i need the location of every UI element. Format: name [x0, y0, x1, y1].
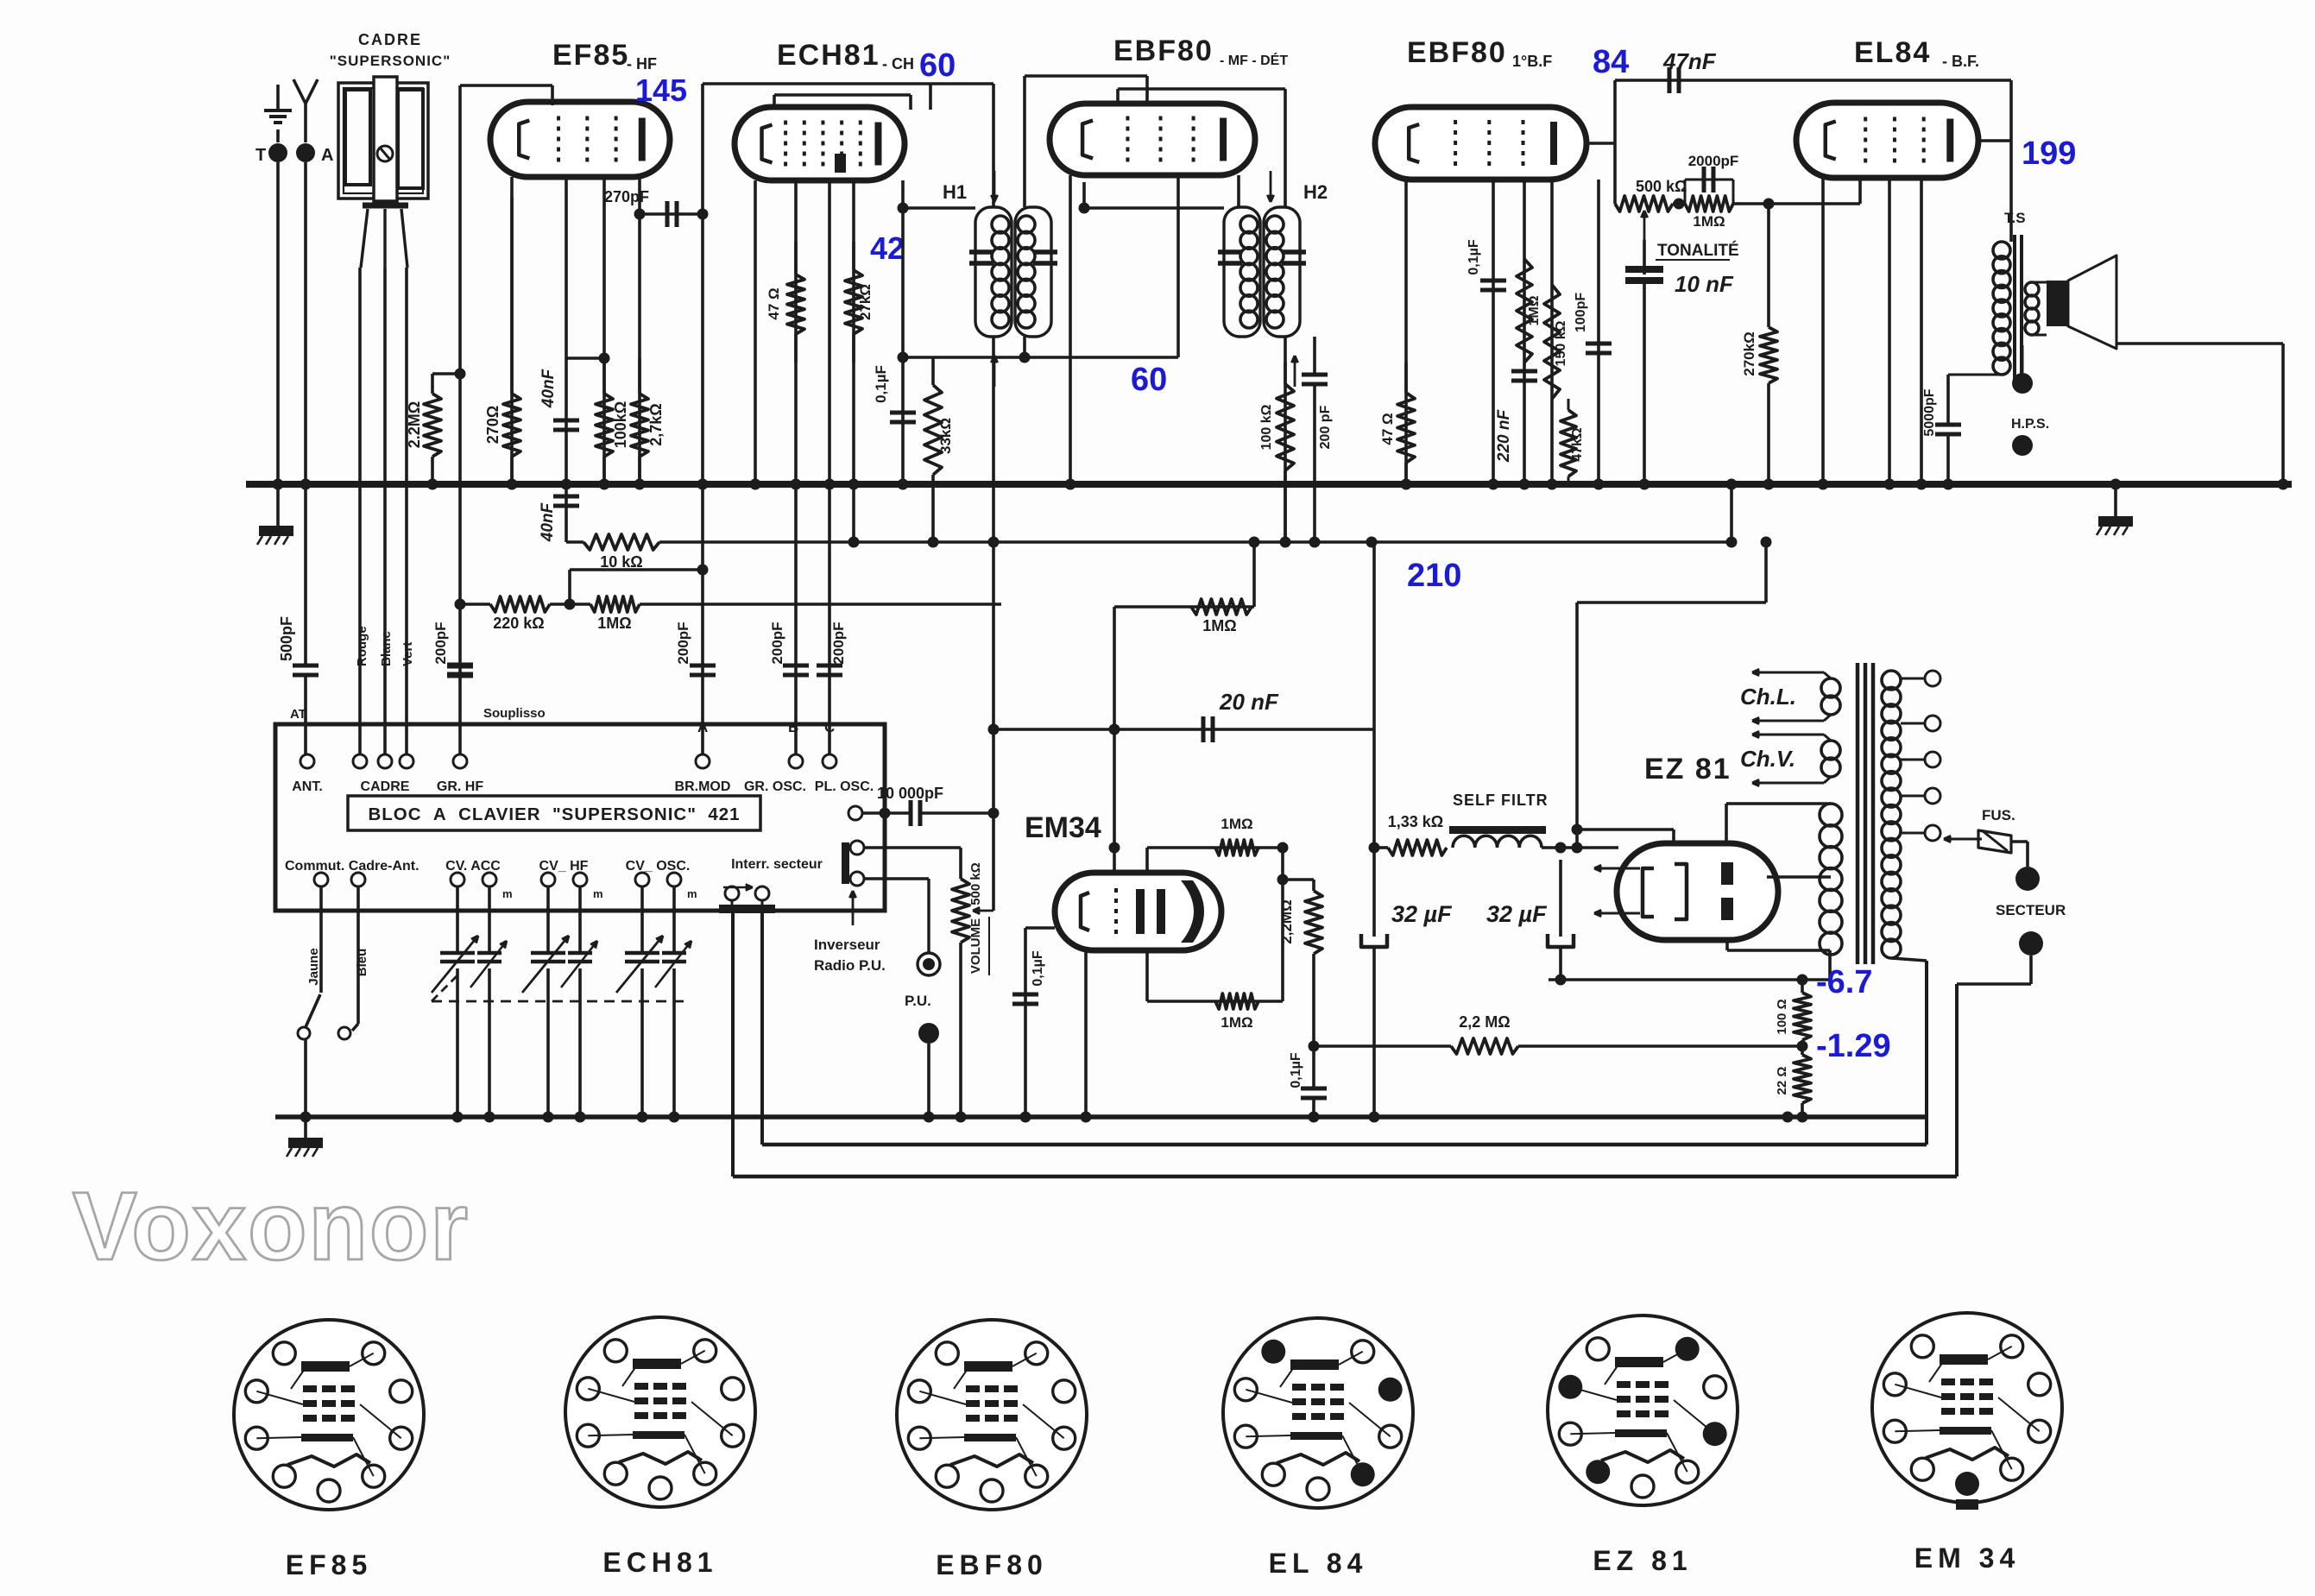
svg-text:0,1µF: 0,1µF — [873, 365, 889, 403]
svg-text:100kΩ: 100kΩ — [612, 401, 629, 448]
svg-text:32 µF: 32 µF — [1486, 901, 1548, 927]
svg-text:27kΩ: 27kΩ — [857, 284, 874, 320]
svg-text:- CH: - CH — [882, 55, 914, 73]
svg-text:FUS.: FUS. — [1982, 807, 2015, 823]
svg-text:EM34: EM34 — [1025, 811, 1101, 844]
svg-text:1,33 kΩ: 1,33 kΩ — [1388, 813, 1443, 830]
svg-text:210: 210 — [1407, 558, 1461, 594]
svg-text:Blanc: Blanc — [379, 631, 394, 666]
svg-text:2,7kΩ: 2,7kΩ — [647, 403, 665, 445]
svg-text:EBF80: EBF80 — [936, 1549, 1048, 1580]
svg-text:PL. OSC.: PL. OSC. — [815, 779, 874, 794]
svg-text:100pF: 100pF — [1574, 293, 1588, 332]
svg-text:1MΩ: 1MΩ — [1221, 816, 1252, 832]
svg-text:ECH81: ECH81 — [777, 39, 880, 72]
svg-text:Vert: Vert — [401, 642, 415, 666]
svg-text:Ch.L.: Ch.L. — [1740, 684, 1796, 710]
svg-text:A: A — [321, 146, 333, 165]
svg-text:P.U.: P.U. — [905, 993, 931, 1009]
svg-text:5000pF: 5000pF — [1922, 388, 1937, 436]
svg-text:1MΩ: 1MΩ — [1221, 1014, 1252, 1031]
svg-text:C: C — [824, 719, 835, 735]
svg-text:47 Ω: 47 Ω — [1379, 413, 1396, 445]
svg-text:Voxonor: Voxonor — [73, 1172, 470, 1280]
svg-text:BLOC A CLAVIER "SUPERSONIC": BLOC A CLAVIER "SUPERSONIC" 421 — [368, 804, 740, 824]
svg-text:EBF80: EBF80 — [1113, 35, 1214, 67]
svg-text:EF85: EF85 — [552, 39, 629, 72]
svg-text:- B.F.: - B.F. — [1942, 53, 1979, 70]
svg-text:47nF: 47nF — [1662, 48, 1717, 74]
svg-text:Jaune: Jaune — [306, 948, 321, 985]
svg-text:CV. ACC: CV. ACC — [445, 859, 501, 874]
svg-text:145: 145 — [635, 73, 687, 108]
svg-text:Interr. secteur: Interr. secteur — [731, 857, 823, 872]
svg-text:SECTEUR: SECTEUR — [1996, 902, 2066, 918]
svg-text:200pF: 200pF — [830, 621, 847, 664]
svg-text:SELF FILTR: SELF FILTR — [1453, 792, 1549, 809]
svg-text:20 nF: 20 nF — [1219, 689, 1279, 715]
svg-text:10 000pF: 10 000pF — [877, 785, 943, 802]
svg-text:2,2MΩ: 2,2MΩ — [1278, 899, 1295, 943]
svg-text:Souplisso: Souplisso — [483, 706, 546, 721]
svg-text:CADRE: CADRE — [358, 31, 422, 48]
svg-text:220 nF: 220 nF — [1495, 409, 1513, 464]
svg-text:500pF: 500pF — [278, 616, 295, 661]
svg-text:Commut. Cadre-Ant.: Commut. Cadre-Ant. — [285, 859, 419, 874]
svg-text:AT: AT — [290, 707, 306, 722]
svg-text:Inverseur: Inverseur — [814, 937, 880, 953]
svg-text:10 kΩ: 10 kΩ — [600, 553, 642, 571]
svg-text:2000pF: 2000pF — [1688, 153, 1739, 169]
svg-text:200 pF: 200 pF — [1318, 405, 1333, 449]
svg-text:ANT.: ANT. — [292, 779, 323, 794]
svg-text:150 kΩ: 150 kΩ — [1554, 320, 1568, 366]
svg-text:T.S: T.S — [2004, 210, 2026, 226]
svg-text:1MΩ: 1MΩ — [1693, 213, 1725, 230]
svg-text:-1.29: -1.29 — [1816, 1028, 1891, 1064]
svg-text:Ch.V.: Ch.V. — [1740, 746, 1795, 772]
svg-text:42: 42 — [870, 230, 905, 266]
svg-text:m: m — [593, 887, 603, 900]
svg-text:Rouge: Rouge — [355, 626, 369, 666]
svg-text:47kΩ: 47kΩ — [1570, 427, 1585, 462]
svg-text:60: 60 — [1131, 362, 1167, 398]
svg-text:H.P.S.: H.P.S. — [2011, 417, 2049, 432]
svg-text:270pF: 270pF — [604, 188, 649, 205]
svg-text:EL 84: EL 84 — [1269, 1548, 1368, 1579]
svg-text:33kΩ: 33kΩ — [937, 418, 954, 454]
svg-text:A: A — [697, 719, 708, 735]
svg-text:60: 60 — [919, 47, 956, 84]
svg-text:EL84: EL84 — [1854, 36, 1931, 69]
svg-text:TONALITÉ: TONALITÉ — [1657, 241, 1739, 260]
svg-text:40nF: 40nF — [539, 368, 558, 408]
svg-text:CV_ OSC.: CV_ OSC. — [626, 859, 691, 874]
svg-text:40nF: 40nF — [539, 502, 557, 542]
svg-text:VOLUME: VOLUME — [968, 918, 983, 974]
svg-text:ECH81: ECH81 — [602, 1547, 717, 1578]
svg-text:10 nF: 10 nF — [1675, 271, 1734, 297]
svg-text:EF85: EF85 — [286, 1549, 372, 1580]
svg-text:EM 34: EM 34 — [1914, 1542, 2020, 1574]
svg-text:1MΩ: 1MΩ — [597, 615, 631, 632]
svg-text:"SUPERSONIC": "SUPERSONIC" — [330, 53, 451, 69]
svg-text:B: B — [788, 719, 798, 735]
svg-text:47 Ω: 47 Ω — [766, 287, 782, 319]
svg-text:1MΩ: 1MΩ — [1202, 617, 1236, 634]
svg-text:32 µF: 32 µF — [1391, 901, 1453, 927]
svg-text:GR. HF: GR. HF — [437, 779, 483, 794]
svg-text:H2: H2 — [1303, 181, 1328, 203]
svg-text:200pF: 200pF — [769, 621, 785, 664]
svg-text:GR. OSC.: GR. OSC. — [744, 779, 806, 794]
svg-text:1°B.F: 1°B.F — [1512, 53, 1552, 70]
svg-text:500 kΩ: 500 kΩ — [1636, 178, 1687, 195]
svg-text:220 kΩ: 220 kΩ — [493, 615, 544, 632]
svg-text:84: 84 — [1593, 44, 1629, 80]
svg-text:200pF: 200pF — [432, 621, 449, 664]
svg-text:100 kΩ: 100 kΩ — [1259, 404, 1274, 450]
svg-text:EBF80: EBF80 — [1407, 36, 1507, 69]
svg-text:- HF: - HF — [627, 55, 657, 73]
svg-text:0,1µF: 0,1µF — [1467, 239, 1481, 274]
svg-text:- MF - DÉT: - MF - DÉT — [1220, 52, 1288, 68]
svg-text:Bleu: Bleu — [355, 949, 369, 977]
svg-text:100 Ω: 100 Ω — [1775, 999, 1789, 1034]
svg-text:CV_ HF: CV_ HF — [539, 859, 589, 874]
svg-text:2.2MΩ: 2.2MΩ — [406, 401, 423, 448]
svg-text:H1: H1 — [943, 181, 967, 203]
svg-text:199: 199 — [2022, 136, 2076, 172]
svg-text:0,1µF: 0,1µF — [1031, 950, 1045, 986]
svg-text:22 Ω: 22 Ω — [1775, 1067, 1789, 1095]
svg-text:BR.MOD: BR.MOD — [675, 779, 731, 794]
svg-text:500 kΩ: 500 kΩ — [968, 862, 983, 905]
svg-text:2,2 MΩ: 2,2 MΩ — [1459, 1013, 1510, 1031]
svg-text:270Ω: 270Ω — [484, 406, 501, 444]
svg-text:m: m — [687, 887, 697, 900]
svg-text:-6.7: -6.7 — [1816, 964, 1872, 1000]
svg-text:1MΩ: 1MΩ — [1527, 295, 1542, 325]
svg-text:T: T — [255, 146, 266, 165]
svg-text:CADRE: CADRE — [361, 779, 410, 794]
svg-text:EZ 81: EZ 81 — [1644, 753, 1732, 785]
svg-text:200pF: 200pF — [675, 621, 691, 664]
svg-text:0,1µF: 0,1µF — [1289, 1052, 1303, 1088]
svg-text:m: m — [502, 887, 513, 900]
svg-text:Radio P.U.: Radio P.U. — [814, 957, 886, 974]
svg-text:EZ 81: EZ 81 — [1593, 1545, 1692, 1576]
svg-text:270kΩ: 270kΩ — [1741, 331, 1757, 375]
